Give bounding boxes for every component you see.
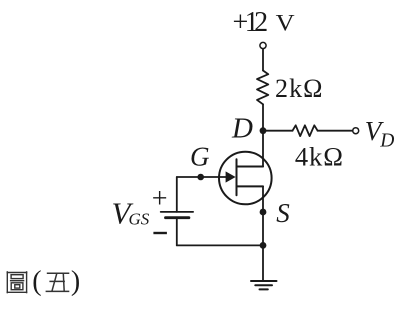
output terminal VD bbox=[353, 128, 359, 134]
hanzi tu outer box bottom bar bbox=[7, 291, 28, 293]
svg-text:4kΩ: 4kΩ bbox=[295, 142, 343, 172]
resistor 4kΩ bbox=[293, 125, 318, 136]
svg-text:): ) bbox=[71, 266, 80, 297]
ground bar 3 bbox=[260, 288, 268, 290]
battery VGS negative plate bbox=[166, 216, 189, 219]
wire left branch vertical to battery bbox=[176, 177, 178, 212]
gate arrowhead bbox=[226, 171, 236, 182]
svg-text:S: S bbox=[276, 198, 290, 228]
hanzi wu top bar bbox=[47, 272, 70, 274]
hanzi wu left slanted vertical bbox=[52, 273, 57, 291]
wire battery to bottom bbox=[176, 218, 178, 246]
wire resistor to node D and drain bbox=[262, 104, 264, 166]
ground bar 2 bbox=[255, 284, 272, 286]
hanzi wu right vertical bbox=[62, 273, 65, 291]
hanzi tu bottom outer box bbox=[11, 283, 23, 290]
resistor 2kΩ bbox=[257, 71, 268, 105]
transistor Q1 body circle bbox=[219, 152, 272, 205]
wire node D to resistor 4k bbox=[263, 130, 293, 132]
svg-text:G: G bbox=[190, 142, 210, 172]
wire terminal to resistor R1 bbox=[262, 49, 264, 71]
hanzi wu bottom bar bbox=[46, 290, 70, 292]
wire source down to junction bbox=[262, 186, 264, 245]
hanzi tu middle bar bbox=[10, 280, 24, 282]
svg-text:D: D bbox=[231, 113, 253, 145]
hanzi tu outer box left vertical bbox=[6, 271, 8, 293]
hanzi tu bottom inner box bbox=[15, 285, 20, 288]
transistor drain bar bbox=[237, 166, 264, 168]
supply terminal (+12V) bbox=[260, 42, 266, 48]
gate node dot bbox=[197, 174, 204, 181]
svg-text:V: V bbox=[276, 10, 295, 35]
ground bar 1 bbox=[251, 280, 277, 282]
bottom junction dot bbox=[260, 242, 267, 249]
wire junction to ground bbox=[262, 245, 264, 281]
svg-text:2kΩ: 2kΩ bbox=[275, 74, 323, 103]
gate wire bbox=[177, 176, 227, 178]
svg-text:2: 2 bbox=[254, 7, 268, 38]
transistor channel bar bbox=[236, 159, 238, 195]
hanzi tu inner top small box bbox=[11, 275, 23, 279]
node D junction dot bbox=[260, 127, 267, 134]
svg-text:(: ( bbox=[32, 266, 41, 297]
wire resistor 4k to output terminal bbox=[318, 130, 353, 132]
hanzi wu middle bar bbox=[49, 280, 65, 282]
node S junction dot bbox=[260, 209, 267, 216]
hanzi tu outer box right vertical bbox=[26, 271, 28, 293]
transistor source bar bbox=[237, 185, 264, 187]
battery minus sign bbox=[153, 232, 167, 234]
battery VGS positive plate bbox=[161, 211, 193, 213]
hanzi tu outer box top bar bbox=[7, 272, 28, 274]
bottom wire to source junction bbox=[177, 244, 263, 246]
svg-text:+: + bbox=[152, 184, 168, 215]
caption 圖(五) figure five bbox=[7, 271, 28, 293]
